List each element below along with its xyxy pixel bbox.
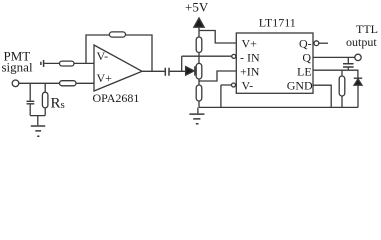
wire Q- stub [319, 42, 328, 44]
resistor input (V+ series) [60, 81, 77, 86]
wire pull resistor stubs [341, 70, 343, 107]
ground divider [197, 107, 199, 113]
node TTL output terminal [355, 54, 361, 60]
svg-text:output: output [346, 35, 377, 49]
wire op-amp output row [142, 70, 186, 72]
wire branch up to -IN row [181, 56, 183, 71]
svg-text:V+: V+ [97, 71, 113, 85]
svg-text:OPA2681: OPA2681 [93, 91, 140, 105]
resistor V- series [60, 61, 75, 66]
diode clamp D2 [354, 77, 362, 79]
capacitor output filter [347, 57, 349, 70]
resistor pull-down [339, 76, 345, 96]
wire cap branch down [29, 83, 31, 115]
wire GND pin [313, 85, 331, 107]
capacitor output coupling [165, 68, 169, 76]
wire LE row [313, 70, 358, 78]
wire bottom join [30, 116, 45, 126]
node Q- pin circle [314, 41, 319, 46]
power +5V arrow [194, 18, 204, 27]
resistor Rs [42, 92, 48, 108]
comparator U2 LT1711 box [236, 33, 313, 93]
wire V- row [44, 62, 94, 64]
wire +IN branch [199, 71, 236, 81]
wire V- pin to ground rail [221, 85, 232, 107]
svg-text:Q-: Q- [299, 36, 312, 50]
wire +5V column [198, 27, 200, 107]
wire main input row [19, 82, 94, 84]
wire -IN row [182, 55, 232, 57]
svg-text:GND: GND [287, 78, 313, 92]
resistor divider RC [196, 85, 202, 101]
svg-text:LT1711: LT1711 [259, 15, 296, 29]
wire diode to ground rail [357, 85, 359, 107]
ground input [31, 126, 45, 136]
capacitor input shunt [27, 101, 35, 104]
node -IN pin circle [232, 54, 236, 58]
node PMT input terminal [12, 80, 19, 87]
svg-text:- IN: - IN [240, 50, 260, 64]
op-amp U1 triangle [94, 45, 142, 91]
ground rail bottom [199, 106, 358, 108]
capacitor V- input coupling [41, 60, 44, 67]
svg-text:V-: V- [242, 78, 254, 92]
resistor feedback [109, 32, 125, 37]
wire Q output row [313, 56, 355, 58]
svg-text:TTL: TTL [356, 22, 378, 36]
wire +5V branch to V+ pin [199, 31, 236, 44]
svg-text:V+: V+ [242, 36, 258, 50]
resistor divider RB [196, 63, 202, 79]
resistor divider RA [196, 37, 202, 53]
node V- pin circle [232, 83, 236, 87]
svg-text:V-: V- [97, 49, 109, 63]
svg-text:Rs: Rs [51, 96, 65, 112]
wire feedback loop [86, 35, 152, 71]
svg-text:signal: signal [2, 60, 33, 75]
svg-text:Q: Q [302, 50, 311, 64]
svg-text:+5V: +5V [185, 0, 209, 15]
wire Rs branch down [44, 83, 46, 115]
svg-text:+IN: +IN [240, 64, 260, 78]
svg-text:LE: LE [297, 64, 312, 78]
diode wiper arrow D1 [186, 67, 195, 76]
